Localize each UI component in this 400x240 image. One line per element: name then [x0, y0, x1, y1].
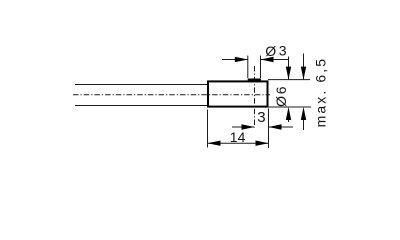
svg-text:max. 6,5: max. 6,5: [312, 57, 328, 128]
svg-text:3: 3: [257, 109, 265, 126]
svg-text:3: 3: [279, 43, 287, 59]
svg-text:Ø: Ø: [265, 43, 276, 59]
svg-text:Ø: Ø: [273, 96, 289, 107]
svg-text:14: 14: [230, 129, 246, 145]
svg-text:6: 6: [273, 86, 289, 94]
